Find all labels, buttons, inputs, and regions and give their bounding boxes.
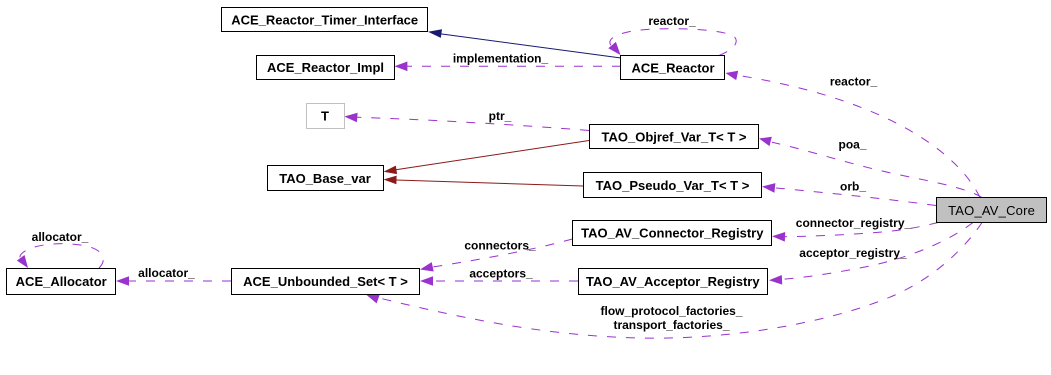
wire: TAO_AV_Core to TAO_AV_Acceptor_Registry (acceptor_registry_) <box>769 223 973 285</box>
wire: TAO_AV_Acceptor_Registry to ACE_Unbounded_Set (acceptors_) <box>420 276 578 286</box>
wire: TAO_AV_Core to ACE_Unbounded_Set (flow_protocol_factories_ / transport_factories_) <box>366 223 982 339</box>
svg-text:TAO_Base_var: TAO_Base_var <box>279 171 371 186</box>
node TAO_AV_Connector_Registry <box>573 221 772 246</box>
wire: TAO_Objref_Var_T to T (ptr_) <box>344 113 589 131</box>
svg-text:allocator_: allocator_ <box>138 266 195 280</box>
svg-text:implementation_: implementation_ <box>453 52 549 66</box>
svg-text:allocator_: allocator_ <box>32 230 89 244</box>
svg-text:reactor_: reactor_ <box>648 14 696 28</box>
svg-text:TAO_AV_Connector_Registry: TAO_AV_Connector_Registry <box>581 226 764 241</box>
node ACE_Reactor_Impl <box>257 56 395 80</box>
svg-text:ACE_Reactor_Timer_Interface: ACE_Reactor_Timer_Interface <box>231 12 418 27</box>
node TAO_AV_Core (main, grey) <box>937 198 1047 223</box>
svg-text:acceptor_registry_: acceptor_registry_ <box>799 246 907 260</box>
svg-text:acceptors_: acceptors_ <box>469 267 533 281</box>
svg-text:reactor_: reactor_ <box>830 75 878 89</box>
wire: TAO_AV_Core to ACE_Reactor (reactor_) <box>726 71 981 198</box>
node TAO_Objref_Var_T< T > <box>590 125 759 149</box>
wire: ACE_Reactor to ACE_Reactor_Impl (implementation_) <box>394 62 621 72</box>
node ACE_Reactor_Timer_Interface <box>222 8 428 32</box>
svg-text:ACE_Unbounded_Set< T >: ACE_Unbounded_Set< T > <box>243 274 408 289</box>
svg-text:ptr_: ptr_ <box>489 109 512 123</box>
node T <box>307 104 345 129</box>
wire: ACE_Reactor to ACE_Reactor_Timer_Interface (inheritance, midnightblue) <box>428 29 621 58</box>
svg-text:ACE_Reactor_Impl: ACE_Reactor_Impl <box>267 60 384 75</box>
node ACE_Allocator <box>7 269 116 295</box>
svg-text:TAO_AV_Core: TAO_AV_Core <box>948 203 1035 218</box>
node TAO_Pseudo_Var_T< T > <box>584 173 762 198</box>
svg-text:ACE_Allocator: ACE_Allocator <box>16 274 107 289</box>
node TAO_AV_Acceptor_Registry <box>579 269 768 295</box>
svg-text:TAO_Objref_Var_T< T >: TAO_Objref_Var_T< T > <box>602 129 747 144</box>
svg-text:T: T <box>321 109 329 124</box>
node ACE_Reactor <box>621 56 725 80</box>
svg-text:flow_protocol_factories_: flow_protocol_factories_ <box>600 304 742 318</box>
wire: TAO_AV_Core to TAO_AV_Connector_Registry (connector_registry_) <box>772 223 938 242</box>
wire: TAO_Pseudo_Var_T to TAO_Base_var (inheritance, dark red) <box>384 176 584 186</box>
wire: TAO_AV_Core to TAO_Pseudo_Var_T (orb_) <box>762 183 936 205</box>
svg-text:poa_: poa_ <box>838 138 866 152</box>
svg-text:orb_: orb_ <box>840 180 866 194</box>
node ACE_Unbounded_Set< T > <box>232 269 420 295</box>
svg-text:connector_registry_: connector_registry_ <box>796 216 912 230</box>
wire: ACE_Unbounded_Set to ACE_Allocator (allocator_) <box>116 276 231 286</box>
svg-text:TAO_Pseudo_Var_T< T >: TAO_Pseudo_Var_T< T > <box>596 178 750 193</box>
svg-text:connectors_: connectors_ <box>464 239 536 253</box>
wire: ACE_Allocator self loop (allocator_) <box>17 244 103 268</box>
svg-text:TAO_AV_Acceptor_Registry: TAO_AV_Acceptor_Registry <box>586 274 760 289</box>
node TAO_Base_var <box>268 166 384 191</box>
wire: TAO_AV_Connector_Registry to ACE_Unbounded_Set (connectors_) <box>420 239 573 272</box>
wire: TAO_Objref_Var_T to TAO_Base_var (inheritance, dark red) <box>384 141 590 175</box>
svg-text:ACE_Reactor: ACE_Reactor <box>631 60 714 75</box>
wire: ACE_Reactor self loop (reactor_) <box>608 29 736 56</box>
wire: TAO_AV_Core to TAO_Objref_Var_T (poa_) <box>759 137 982 198</box>
svg-text:transport_factories_: transport_factories_ <box>613 318 729 332</box>
